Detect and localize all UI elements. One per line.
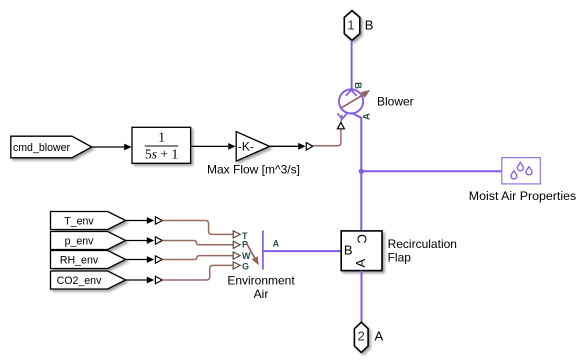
ps converter triangle up	[337, 122, 344, 128]
label Environment Air	[227, 273, 295, 301]
wire junction to moist air properties	[361, 170, 502, 172]
wire CO2_env to converter	[126, 276, 163, 283]
svg-text:CO2_env: CO2_env	[57, 275, 102, 287]
svg-text:Moist Air Properties: Moist Air Properties	[469, 189, 576, 203]
svg-text:Air: Air	[254, 287, 269, 301]
svg-text:G: G	[242, 261, 249, 271]
svg-text:B: B	[365, 17, 374, 32]
wire environment air to flap B	[263, 250, 341, 252]
svg-text:1: 1	[347, 18, 354, 33]
svg-text:W: W	[242, 251, 251, 261]
svg-text:p_env: p_env	[65, 236, 95, 248]
environment air port T triangle	[233, 231, 240, 238]
svg-text:B: B	[352, 82, 363, 89]
wire p_env to converter	[126, 237, 163, 244]
from tag T_env	[51, 212, 126, 230]
blower port label B	[352, 82, 363, 89]
svg-text:5s + 1: 5s + 1	[145, 147, 178, 162]
svg-text:1: 1	[158, 130, 165, 145]
svg-text:T_env: T_env	[64, 216, 94, 228]
wire T_env to converter	[126, 217, 163, 224]
environment air port P triangle	[233, 241, 240, 248]
svg-text:Max Flow [m^3/s]: Max Flow [m^3/s]	[207, 163, 300, 177]
recirculation flap block	[341, 231, 382, 271]
environment air icon bar	[262, 230, 264, 269]
blower fan arrow	[342, 90, 371, 108]
environment air icon arrow	[246, 243, 259, 266]
from tag RH_env	[51, 251, 126, 269]
svg-text:2: 2	[358, 329, 365, 344]
svg-text:B: B	[344, 243, 353, 258]
node label A	[273, 239, 280, 249]
svg-text:-K-: -K-	[238, 139, 254, 153]
ps wire CO2_env to G port	[162, 265, 233, 280]
from tag cmd_blower	[11, 136, 92, 158]
svg-text:A: A	[362, 113, 373, 120]
ps wire RH_env to W port	[162, 256, 233, 260]
port 1 (hexagon)	[344, 11, 360, 41]
svg-text:Environment: Environment	[227, 273, 295, 287]
gain Max Flow -K-	[236, 132, 269, 162]
wire port1 to blower	[351, 40, 353, 89]
blower port label A	[362, 113, 373, 120]
svg-text:Flap: Flap	[388, 250, 412, 264]
svg-text:cmd_blower: cmd_blower	[13, 142, 71, 154]
physical signal wire to blower	[313, 129, 341, 146]
from tag CO2_env	[51, 271, 126, 289]
svg-text:A: A	[375, 328, 384, 343]
blower ps port chevron	[337, 113, 347, 119]
label B of port 1	[365, 17, 374, 32]
wire cmd_blower to transfer fcn	[92, 144, 132, 151]
transfer fcn 1/(5s+1)	[132, 127, 191, 163]
wire flap A to port 2	[361, 271, 363, 322]
environment air port W triangle	[233, 252, 240, 259]
label A of port 2	[375, 328, 384, 343]
port 2 (hexagon)	[354, 322, 368, 352]
label Blower	[377, 94, 414, 108]
label Moist Air Properties	[469, 189, 576, 203]
label Recirculation Flap	[388, 237, 457, 264]
wire blower A down	[351, 113, 361, 231]
junction node	[359, 169, 364, 174]
ps wire stub to blower port	[340, 115, 343, 122]
environment air port G triangle	[233, 262, 240, 269]
svg-text:A: A	[353, 259, 368, 268]
ps wire T_env to T port	[162, 221, 233, 235]
ps wire p_env to P port	[162, 241, 233, 245]
simulink-ps converter triangle	[306, 143, 313, 150]
port letters T P W G	[242, 231, 251, 271]
blower circle	[339, 89, 363, 113]
svg-text:A: A	[273, 239, 280, 249]
svg-text:Recirculation: Recirculation	[388, 237, 457, 251]
moist air properties block	[502, 158, 541, 184]
svg-text:C: C	[354, 234, 369, 243]
wire gain to converter	[270, 143, 306, 150]
wire RH_env to converter	[126, 256, 163, 263]
svg-text:Blower: Blower	[377, 94, 414, 108]
wire transfer fcn to gain	[191, 143, 236, 150]
from tag p_env	[51, 232, 126, 250]
svg-text:RH_env: RH_env	[60, 255, 99, 267]
